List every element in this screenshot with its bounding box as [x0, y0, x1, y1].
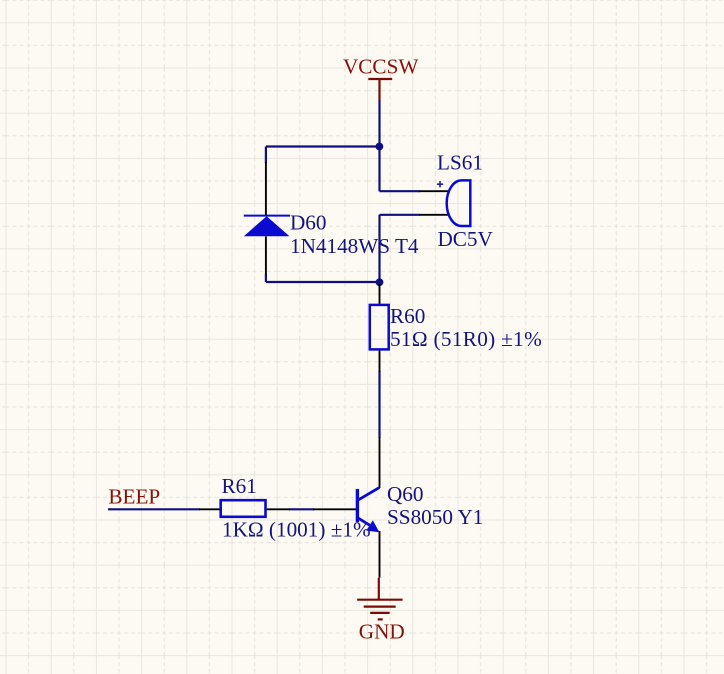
svg-text:VCCSW: VCCSW — [343, 55, 418, 79]
svg-text:BEEP: BEEP — [108, 485, 160, 509]
svg-text:1N4148WS T4: 1N4148WS T4 — [290, 234, 419, 258]
svg-text:Q60: Q60 — [387, 482, 424, 506]
svg-text:R61: R61 — [222, 474, 257, 498]
svg-text:1KΩ (1001) ±1%: 1KΩ (1001) ±1% — [222, 517, 371, 541]
svg-text:LS61: LS61 — [437, 151, 483, 175]
svg-text:R60: R60 — [390, 304, 425, 328]
svg-text:SS8050 Y1: SS8050 Y1 — [387, 505, 483, 529]
svg-text:DC5V: DC5V — [438, 227, 494, 251]
svg-text:51Ω (51R0) ±1%: 51Ω (51R0) ±1% — [390, 327, 542, 351]
svg-text:D60: D60 — [290, 211, 327, 235]
svg-text:GND: GND — [359, 620, 405, 644]
